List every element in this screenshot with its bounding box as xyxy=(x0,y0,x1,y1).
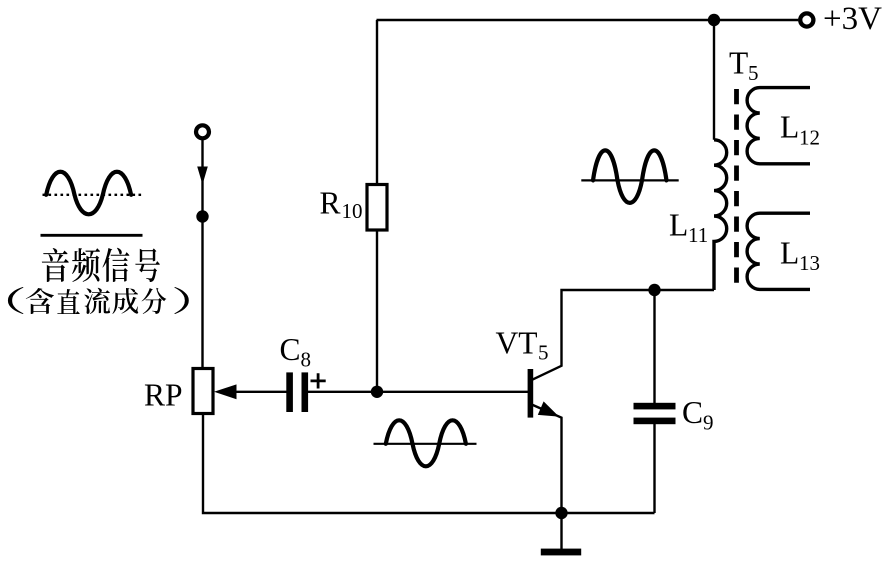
svg-text:C: C xyxy=(682,395,703,430)
svg-text:VT: VT xyxy=(496,325,538,360)
wire primary lead from rail to L11 xyxy=(713,20,715,140)
dotted DC level line xyxy=(43,194,142,196)
wire base line RP arrow to C8 to VT5 base xyxy=(232,391,288,393)
transformer T5 core (dashed) xyxy=(734,89,739,283)
caption line2: contains DC component xyxy=(8,287,189,314)
wire emitter down xyxy=(532,405,562,513)
waveform collector sine xyxy=(593,150,667,203)
svg-text:10: 10 xyxy=(342,199,363,223)
caption underline xyxy=(41,234,143,237)
wire C9 vertical bottom xyxy=(653,424,655,513)
waveform base sine xyxy=(386,420,466,466)
resistor R10 xyxy=(367,185,387,231)
svg-text:C: C xyxy=(280,332,301,367)
node base junction xyxy=(371,386,383,398)
wire R10 branch vertical xyxy=(376,20,378,186)
capacitor C8 (polarized) xyxy=(286,372,293,412)
waveform input sine (with DC dotted line) xyxy=(46,172,131,215)
VT5 emitter arrow xyxy=(538,401,559,416)
+3V supply terminal xyxy=(800,13,813,26)
wire C9 vertical top xyxy=(653,290,655,404)
svg-text:12: 12 xyxy=(799,125,820,149)
collector sine axis xyxy=(581,179,678,181)
node collector rail junction xyxy=(648,284,660,296)
inductor L13 secondary winding xyxy=(747,213,810,289)
wire input vertical xyxy=(201,139,203,369)
svg-text:L: L xyxy=(669,208,688,243)
wire collector to node A rail xyxy=(532,290,714,380)
RP wiper arrow xyxy=(214,384,237,399)
capacitor C9 xyxy=(634,403,676,410)
ground xyxy=(541,549,581,556)
svg-text:11: 11 xyxy=(688,223,708,247)
node emitter ground junction xyxy=(555,507,567,519)
node power rail junction xyxy=(708,14,720,26)
svg-text:5: 5 xyxy=(538,341,549,365)
caption line1: audio signal xyxy=(42,248,160,282)
C8 plus sign xyxy=(311,373,326,388)
svg-text:RP: RP xyxy=(144,378,183,413)
potentiometer RP xyxy=(193,369,213,414)
svg-text:8: 8 xyxy=(301,348,312,372)
svg-text:5: 5 xyxy=(748,61,759,85)
wire top power rail xyxy=(377,19,799,21)
svg-text:L: L xyxy=(780,110,799,145)
wire ground lead xyxy=(560,513,562,549)
inductor L11 primary winding xyxy=(714,140,727,290)
svg-text:13: 13 xyxy=(799,251,820,275)
svg-text:T: T xyxy=(729,46,748,81)
wire RP bottom to ground rail xyxy=(203,414,655,514)
svg-text:R: R xyxy=(320,186,341,221)
input terminal xyxy=(196,125,209,138)
svg-text:L: L xyxy=(780,236,799,271)
svg-text:+3V: +3V xyxy=(823,1,882,37)
base sine axis xyxy=(374,443,477,445)
input flow arrow xyxy=(197,167,208,185)
node input signal xyxy=(196,210,208,222)
inductor L12 secondary winding xyxy=(747,88,810,164)
svg-text:9: 9 xyxy=(703,411,714,435)
transistor VT5 xyxy=(528,369,534,418)
